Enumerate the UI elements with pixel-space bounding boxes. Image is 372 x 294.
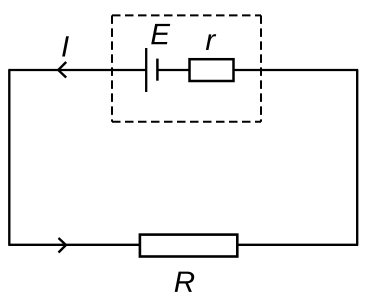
wire bottom-right segment [237, 244, 358, 246]
resistor R box [140, 235, 237, 257]
wire right side [356, 70, 358, 245]
wire top-left segment [8, 69, 146, 71]
label I (current) [62, 36, 69, 56]
current arrow on top wire (pointing left) [58, 62, 66, 78]
battery E short plate [156, 59, 159, 81]
wire bottom-left segment [8, 244, 140, 246]
label r (internal resistance) [206, 34, 216, 50]
wire battery to resistor r [157, 69, 189, 71]
battery E long plate [145, 48, 147, 92]
label E (emf) [151, 24, 170, 44]
wire left side [8, 70, 10, 245]
resistor r box [190, 59, 234, 81]
label R (external resistance) [175, 272, 194, 292]
current arrow on bottom wire (pointing right) [59, 238, 67, 253]
dashed box around source (E and r) [112, 15, 261, 121]
wire r to top-right corner [234, 69, 359, 71]
